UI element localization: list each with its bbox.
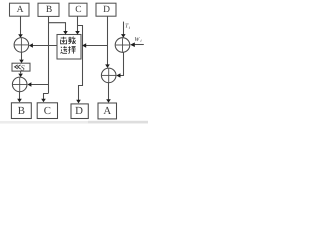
adder U2 (+ B) (12, 77, 27, 92)
wire F output to adder1 (29, 43, 57, 48)
wire B branch to F box top (49, 23, 68, 35)
hanzi 函 (61, 37, 67, 44)
register D (bottom) (71, 104, 88, 119)
hanzi 择 (68, 46, 76, 53)
wire adder3 to register A (bottom) (106, 83, 111, 103)
wire D vertical trunk to adder3 (105, 16, 110, 68)
scan shadow bottom (0, 121, 148, 124)
wire adder4 output to adder3 (116, 52, 123, 77)
svg-text:A: A (103, 105, 111, 117)
wire B branch to adder2 (27, 82, 48, 87)
wire shift box to adder2 (18, 71, 23, 77)
node Wi input (130, 37, 144, 47)
node Ti input (121, 22, 131, 38)
adder U3 (D-path) (101, 68, 116, 83)
wire adder1 to shift box (19, 52, 24, 63)
shift box <<S (12, 63, 30, 72)
svg-text:C: C (44, 105, 51, 117)
hanzi 选 (60, 46, 67, 53)
function select box F (57, 35, 81, 60)
hanzi 数 (68, 37, 75, 44)
register A (top) (10, 3, 30, 16)
svg-text:B: B (18, 105, 25, 117)
register A (bottom) (98, 103, 117, 119)
svg-text:B: B (46, 5, 52, 15)
register B (bottom) (11, 103, 31, 119)
register D (top) (96, 3, 116, 16)
svg-text:A: A (17, 5, 24, 15)
wire C branch to register D (bottom) (76, 26, 82, 104)
register C (top) (69, 3, 87, 16)
wire B tail to register C (bottom) (41, 94, 48, 103)
svg-text:D: D (75, 105, 83, 117)
register C (bottom) (37, 103, 57, 119)
wire C to F box top (75, 16, 80, 34)
svg-text:S: S (21, 63, 25, 72)
svg-text:D: D (103, 5, 110, 15)
svg-text:C: C (75, 5, 81, 15)
adder U4 (Ti + Wi) (115, 38, 130, 53)
wire A to adder1 (18, 16, 23, 38)
register B (top) (38, 3, 59, 16)
wire D branch to F box right (82, 43, 108, 48)
wire adder2 to register B (bottom) (17, 91, 22, 102)
wire B vertical trunk (48, 16, 50, 93)
adder U1 (A + F) (14, 38, 29, 53)
